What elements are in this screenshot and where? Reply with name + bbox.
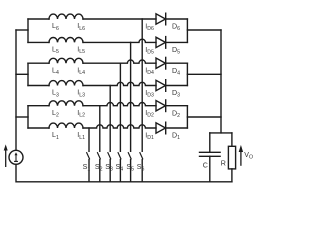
wire switch S1 to ground rail xyxy=(88,160,90,182)
capacitor C xyxy=(200,151,221,153)
switch S1 xyxy=(87,153,90,159)
wire to resistor R xyxy=(231,133,233,146)
wire L4 to diode D4 (with hops) xyxy=(83,60,156,63)
wire pair to output rail xyxy=(187,73,221,75)
inductor L5 xyxy=(49,38,83,43)
output voltage arrow V_O xyxy=(240,152,242,166)
wire switch S5 to ground rail xyxy=(130,160,132,182)
wire rail-to-branch connector xyxy=(16,29,28,31)
wire stub to L6 xyxy=(28,18,49,20)
wire output rail xyxy=(220,30,222,133)
inductor L4 xyxy=(49,58,83,63)
diode D5 xyxy=(156,37,166,47)
input current direction arrow xyxy=(5,150,7,168)
wire stub to L2 xyxy=(28,105,49,107)
wire switch S2 to ground rail xyxy=(99,160,101,182)
wire node L5/D5 down to switch S5 xyxy=(130,42,132,151)
wire pair to output rail xyxy=(187,116,221,118)
wire D4 output xyxy=(166,62,188,64)
resistor R xyxy=(228,146,235,169)
wire switch S3 to ground rail xyxy=(109,160,111,182)
wire switch S4 to ground rail xyxy=(119,160,121,182)
wire node L1/D1 down to switch S1 xyxy=(88,128,90,151)
wire L5 to diode D5 (with hops) xyxy=(83,39,156,42)
wire pair to output rail xyxy=(187,29,221,31)
wire L1 to diode D1 (with hops) xyxy=(83,125,156,128)
wire node L3/D3 down to switch S3 xyxy=(109,86,111,152)
wire rail-to-branch connector xyxy=(16,73,28,75)
wire D3 output xyxy=(166,85,188,87)
wire node L6/D6 down to switch S6 xyxy=(141,19,143,151)
wire stub to L4 xyxy=(28,62,49,64)
diode D4 xyxy=(156,58,166,68)
switch S4 xyxy=(118,153,121,159)
wire to capacitor C xyxy=(209,133,211,152)
wire stub to L5 xyxy=(28,41,49,43)
wire L2 to diode D2 (with hops) xyxy=(83,102,156,105)
switch S6 xyxy=(140,153,143,159)
diode D1 xyxy=(156,123,166,133)
diode D6 xyxy=(156,14,166,24)
switch S5 xyxy=(128,153,131,159)
wire node L4/D4 down to switch S4 xyxy=(119,63,121,151)
wire rail-to-branch connector xyxy=(16,116,28,118)
wire branch vertical xyxy=(27,106,29,128)
inductor L6 xyxy=(49,14,83,19)
inductor L1 xyxy=(49,123,83,128)
wire node L2/D2 down to switch S2 xyxy=(99,106,101,152)
wire D5 output xyxy=(166,41,188,43)
wire branch vertical xyxy=(27,19,29,42)
current source I_in xyxy=(9,150,23,164)
wire D1 output xyxy=(166,127,188,129)
wire stub to L3 xyxy=(28,85,49,87)
wire D6 output xyxy=(166,18,188,20)
svg-text:C: C xyxy=(203,161,208,169)
wire left input rail xyxy=(15,30,17,150)
wire ground/return rail xyxy=(16,164,232,182)
diode D3 xyxy=(156,80,166,90)
inductor L3 xyxy=(49,81,83,86)
wire resistor R to ground rail xyxy=(231,169,233,182)
wire diode-pair vertical xyxy=(186,106,188,128)
wire L6 to diode D6 (with hops) xyxy=(83,18,156,20)
wire branch vertical xyxy=(27,63,29,85)
wire L3 to diode D3 (with hops) xyxy=(83,82,156,85)
svg-text:R: R xyxy=(221,160,226,168)
inductor L2 xyxy=(49,101,83,106)
switch S3 xyxy=(108,153,111,159)
wire D2 output xyxy=(166,105,188,107)
switch S2 xyxy=(98,153,101,159)
wire stub to L1 xyxy=(28,127,49,129)
wire diode-pair vertical xyxy=(186,63,188,85)
diode D2 xyxy=(156,101,166,111)
wire output top bar xyxy=(210,132,232,134)
wire switch S6 to ground rail xyxy=(141,160,143,182)
wire capacitor C to ground rail xyxy=(209,156,211,182)
wire diode-pair vertical xyxy=(186,19,188,42)
